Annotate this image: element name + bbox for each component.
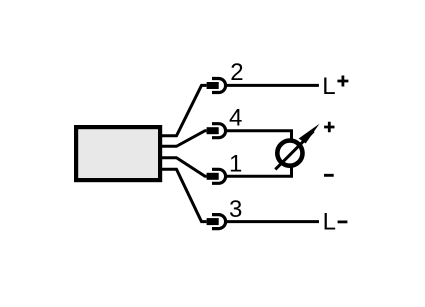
wire box to pin 3 <box>161 169 207 221</box>
connector pin 2 <box>207 79 226 93</box>
svg-text:1: 1 <box>229 151 242 178</box>
wire box to pin 2 <box>161 85 207 135</box>
svg-text:L: L <box>322 73 335 100</box>
wire pin 2 to L+ <box>225 84 319 87</box>
wire pin 4 to meter top <box>225 131 292 140</box>
connector pin 3 <box>207 215 226 229</box>
polarity + at meter <box>324 122 334 132</box>
label L- <box>323 209 348 236</box>
wire box to pin 1 <box>161 158 207 177</box>
wire box to pin 4 <box>161 131 207 147</box>
device box <box>76 127 160 180</box>
connector pin 1 <box>207 169 226 183</box>
svg-text:2: 2 <box>230 59 243 86</box>
wire pin 3 to L- <box>225 220 319 223</box>
wire pin 1 to meter bottom <box>225 167 292 176</box>
polarity - at meter <box>324 174 334 177</box>
meter M1 <box>275 124 319 170</box>
label L+ <box>322 73 348 100</box>
connector pin 4 <box>207 124 226 138</box>
svg-text:L: L <box>323 209 336 236</box>
svg-text:4: 4 <box>229 105 242 132</box>
svg-text:3: 3 <box>229 196 242 223</box>
